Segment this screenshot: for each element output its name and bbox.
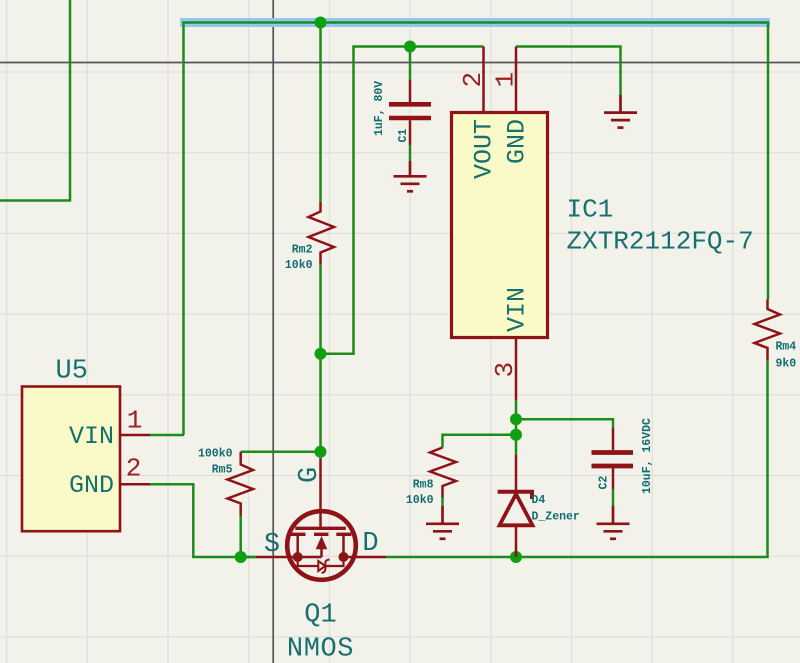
resistor Rm8 bbox=[430, 448, 456, 498]
svg-text:GND: GND bbox=[69, 471, 114, 500]
wire U5 VIN to net bbox=[150, 434, 184, 437]
Q1 source solder dot bbox=[293, 552, 303, 562]
wire node to Rm8 bbox=[443, 435, 517, 448]
wire node top to Rm2 bbox=[319, 23, 322, 203]
svg-text:Rm8: Rm8 bbox=[413, 479, 434, 492]
node Rm2 / riser branch bbox=[315, 348, 327, 360]
wire branch node to vertical riser bbox=[321, 47, 484, 354]
capacitor C2 bbox=[592, 428, 634, 489]
Q1 source rail to arrow bbox=[298, 556, 322, 559]
resistor Rm5 bbox=[228, 452, 254, 516]
Q1 gate pin bbox=[319, 459, 322, 529]
wire C2 to ground bbox=[612, 489, 615, 506]
svg-text:VIN: VIN bbox=[502, 287, 531, 332]
Q1 arrow bbox=[316, 536, 328, 549]
pin 1 of U5 (VIN) bbox=[120, 434, 150, 437]
wire node to C1 bbox=[409, 47, 412, 81]
svg-text:Rm4: Rm4 bbox=[776, 341, 797, 354]
svg-text:3: 3 bbox=[490, 362, 520, 378]
wire IC1 GND pin to ground bbox=[516, 47, 621, 96]
svg-text:9k0: 9k0 bbox=[776, 358, 797, 371]
Q1 arrow stem bbox=[320, 549, 323, 557]
svg-text:2: 2 bbox=[126, 454, 142, 484]
transistor Q1 bbox=[256, 459, 386, 580]
wire node to C2 bbox=[516, 419, 613, 428]
svg-text:Rm5: Rm5 bbox=[212, 464, 233, 477]
wire IC1 VIN pin down bbox=[515, 400, 518, 455]
svg-text:GND: GND bbox=[502, 119, 531, 164]
Q1 channel segment middle bbox=[314, 533, 328, 536]
svg-text:10k0: 10k0 bbox=[406, 494, 434, 507]
IC U5 bbox=[22, 387, 120, 532]
wire source rail segment bbox=[241, 556, 256, 559]
pin 2 of U5 (GND) bbox=[120, 483, 150, 486]
Q1 gate bar bbox=[295, 527, 346, 530]
wire Rm5 top to gate node bbox=[241, 450, 321, 453]
Q1 source drop bbox=[296, 534, 299, 557]
Q1 source pin bbox=[256, 556, 298, 559]
Q1 drain pin bbox=[344, 556, 387, 559]
node highlighted net / Rm2 branch bbox=[315, 17, 327, 29]
wire U5 GND down to bottom rail bbox=[150, 484, 256, 557]
node VIN / Rm8 tap bbox=[510, 429, 522, 441]
svg-text:IC1: IC1 bbox=[567, 195, 614, 225]
Q1 channel segment right bbox=[336, 533, 351, 536]
node source rail / Rm5 bbox=[235, 551, 247, 563]
svg-text:C2: C2 bbox=[598, 476, 611, 490]
IC IC1 bbox=[452, 113, 548, 338]
svg-text:1uF, 80V: 1uF, 80V bbox=[373, 81, 386, 136]
Q1 body diode cathode bbox=[322, 560, 330, 574]
ground for C2 bbox=[597, 506, 630, 539]
svg-text:1: 1 bbox=[490, 72, 520, 88]
svg-text:1: 1 bbox=[127, 406, 143, 436]
node C1 tap bbox=[404, 41, 416, 53]
capacitor C1 bbox=[389, 80, 431, 145]
Q1 body diode triangle bbox=[318, 561, 325, 571]
Q1 body diode loop bbox=[298, 557, 319, 566]
Q1 channel segment left bbox=[290, 533, 306, 536]
wire left entry net bbox=[0, 0, 70, 201]
pin 2 of IC1 (VOUT) bbox=[482, 47, 485, 113]
wire Rm8 to ground bbox=[441, 498, 444, 507]
wire Rm2 to gate node bbox=[319, 265, 322, 459]
ground for Rm8 bbox=[426, 506, 459, 539]
diode D4 zener bbox=[498, 455, 533, 557]
svg-text:VIN: VIN bbox=[69, 422, 114, 451]
svg-text:10uF, 16VDC: 10uF, 16VDC bbox=[641, 418, 654, 494]
svg-text:100k0: 100k0 bbox=[198, 448, 233, 461]
resistor Rm4 bbox=[755, 300, 781, 361]
svg-text:2: 2 bbox=[458, 72, 488, 88]
svg-text:NMOS: NMOS bbox=[287, 635, 354, 663]
node VIN / C2 tap bbox=[510, 413, 522, 425]
svg-text:Rm2: Rm2 bbox=[292, 244, 313, 257]
pin 3 of IC1 (VIN) bbox=[515, 338, 518, 401]
node gate / Rm5 bbox=[315, 446, 327, 458]
svg-text:C1: C1 bbox=[397, 129, 410, 143]
svg-text:U5: U5 bbox=[56, 357, 88, 387]
svg-text:VOUT: VOUT bbox=[470, 119, 499, 179]
wire C1 to ground bbox=[409, 145, 412, 161]
svg-text:ZXTR2112FQ-7: ZXTR2112FQ-7 bbox=[567, 227, 754, 257]
svg-text:Q1: Q1 bbox=[304, 601, 336, 631]
resistor Rm2 bbox=[309, 202, 335, 265]
svg-text:D: D bbox=[362, 529, 378, 559]
wire Rm5 bottom to rail bbox=[239, 516, 242, 558]
svg-text:D_Zener: D_Zener bbox=[532, 511, 580, 524]
pin 1 of IC1 (GND) bbox=[515, 47, 518, 113]
svg-text:S: S bbox=[264, 530, 280, 560]
Q1 body circle bbox=[287, 511, 356, 580]
ground for C1 bbox=[394, 161, 427, 191]
wire drain rail to Rm4 bbox=[386, 361, 768, 558]
Q1 drain drop bbox=[342, 534, 345, 557]
svg-text:G: G bbox=[295, 467, 325, 483]
svg-text:10k0: 10k0 bbox=[285, 259, 313, 272]
svg-text:D4: D4 bbox=[532, 494, 546, 507]
node rail / D4 bbox=[510, 551, 522, 563]
Q1 drain solder dot bbox=[339, 552, 349, 562]
wire top highlighted net bbox=[184, 23, 769, 436]
ground for IC1 GND bbox=[604, 95, 637, 128]
wire highlight halo (selected net) bbox=[180, 18, 770, 27]
